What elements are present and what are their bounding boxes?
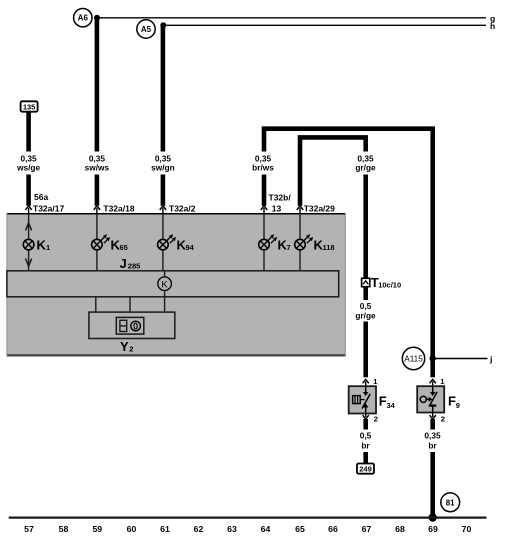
svg-text:A6: A6 [78,14,89,23]
node A5 junction dot [160,22,166,28]
label Y2 [120,339,133,354]
svg-text:2: 2 [129,345,133,354]
wire inside cluster track64 [263,214,265,271]
connector chevron F9 pin 1 [430,377,445,387]
wire ws/ge vertical (track 57, from box 135 to connector T32a/17) [26,112,31,206]
current track numbers 57-70 [24,524,471,534]
svg-text:T32a/2: T32a/2 [169,204,196,214]
label 56a / T32a/17 [33,192,64,214]
svg-text:ws/ge: ws/ge [16,163,40,173]
label wire2 gauge/colour 0,35 sw/ws [85,154,110,173]
connector chevron T32a/18 [94,206,100,214]
svg-text:61: 61 [160,524,170,534]
arrow up above K1 [26,223,32,231]
wire h (thin line from A5 junction to right edge) [164,21,496,31]
svg-text:10c/10: 10c/10 [378,281,401,290]
svg-text:62: 62 [194,524,204,534]
connection A5 (circle label) [137,20,155,38]
svg-text:0,35: 0,35 [424,431,441,441]
label F34 [379,394,396,411]
svg-text:65: 65 [295,524,305,534]
svg-text:A5: A5 [141,25,152,34]
svg-text:60: 60 [127,524,137,534]
svg-text:68: 68 [395,524,405,534]
svg-text:249: 249 [359,465,372,474]
connector chevron T32a/17 [25,206,31,214]
lamp K94 [158,234,195,252]
svg-text:2: 2 [374,415,378,424]
svg-text:58: 58 [59,524,69,534]
svg-text:69: 69 [428,524,438,534]
svg-text:65: 65 [120,243,128,252]
svg-text:34: 34 [387,401,396,410]
wire sw/gn vertical (track 61, from A5 dot to connector T32a/2) [161,25,166,206]
label wire gauge/colour 0,35 br [424,431,441,451]
lamp K1 [23,238,50,253]
wire sw/ws vertical (track 59, from A6 dot to connector T32a/18) [95,18,100,206]
lamp K65 [92,234,128,252]
label wire3 gauge/colour 0,35 sw/gn [151,154,175,173]
connection A6 (circle label) [74,9,92,27]
label T10c/10 [371,275,401,290]
wire 0,5 gr/ge below T10c/10 [363,287,368,378]
wire 0,35 br below F9 [430,419,435,517]
svg-text:T32a/18: T32a/18 [103,204,134,214]
wire br/ws: left leg + outer top bar + right leg down to F9 (tracks 64-69) [264,129,433,378]
connector chevron F9 pin 2 [430,413,445,424]
wire inside cluster track61 [162,214,164,271]
component Y2 clock (box) [89,312,175,338]
inline connector T10c/10 [362,278,370,286]
wire inside cluster track65 [299,214,301,271]
svg-text:7: 7 [287,243,291,252]
connection 135 (box label) [21,101,38,111]
svg-text:285: 285 [128,262,141,271]
wire gr/ge: inner bar from T32a/29 up and over to track 67 [300,137,366,278]
svg-text:K: K [161,279,168,290]
svg-text:T32a/17: T32a/17 [33,204,64,214]
ground connection 81 (circle label) [441,493,460,512]
earth rail (bottom horizontal line) [9,516,487,518]
svg-text:F: F [448,394,456,409]
svg-text:66: 66 [328,524,338,534]
connection A115 (circle label) [402,347,424,369]
label wire1 gauge/colour 0,35 ws/ge [16,154,40,173]
svg-text:67: 67 [362,524,372,534]
connector chevron T32a/2 [160,206,166,214]
svg-text:1: 1 [440,377,444,386]
wire 0,5 br below F34 [363,419,368,464]
connector chevron F34 pin 1 [363,377,378,387]
lamp K7 [259,234,291,252]
svg-text:1: 1 [46,243,50,252]
svg-text:13: 13 [272,204,282,214]
svg-text:br: br [361,440,370,450]
wire stub 2 to Y2 [129,297,131,313]
wire stub 3 to Y2 [164,297,166,313]
svg-text:2: 2 [441,415,445,424]
svg-text:T32b/: T32b/ [269,193,292,203]
label wire gauge/colour 0,5 br [360,431,372,451]
connection 249 (box label) [357,464,374,474]
svg-text:81: 81 [446,498,455,507]
arrow down below K1 [26,259,32,267]
svg-text:70: 70 [462,524,472,534]
connector chevron T32b/13 [261,206,267,214]
node A6 junction dot [94,15,100,21]
label wire gauge/colour 0,5 gr/ge [355,301,376,321]
svg-text:T32a/29: T32a/29 [304,204,335,214]
wire inside cluster track57 [28,214,30,271]
wire g (thin top line from A6 junction to right edge) [97,13,495,23]
svg-text:135: 135 [23,103,36,112]
svg-text:118: 118 [323,243,335,252]
label wire4 gauge/colour 0,35 br/ws [252,154,274,173]
svg-text:br: br [428,440,437,450]
node A115 junction dot [430,355,436,361]
svg-text:J: J [120,256,127,271]
connector chevron T32a/29 [297,206,303,214]
wire j (thin line to right edge) [433,354,493,364]
component J285 instrument cluster (grey body) [7,213,346,356]
label wire6 gauge/colour 0,35 gr/ge [355,154,376,173]
svg-text:h: h [490,21,495,31]
svg-text:K: K [37,238,47,253]
svg-text:0,5: 0,5 [360,431,372,441]
svg-text:sw/gn: sw/gn [151,163,175,173]
svg-text:57: 57 [24,524,34,534]
label T32b/ 13 [269,193,292,214]
terminal K (circled) [158,277,172,291]
component F34 brake fluid level warning contact [349,386,376,413]
wire stub 1 to Y2 [95,297,97,313]
svg-text:9: 9 [456,401,460,410]
svg-text:64: 64 [261,524,271,534]
svg-text:94: 94 [186,243,195,252]
component F9 handbrake warning switch [417,386,444,412]
svg-text:0,5: 0,5 [360,301,372,311]
wire inside cluster track59 [96,214,98,271]
svg-text:sw/ws: sw/ws [85,163,110,173]
connector chevron F34 pin 2 [363,414,378,424]
svg-text:gr/ge: gr/ge [355,163,376,173]
svg-text:1: 1 [373,377,377,386]
svg-text:br/ws: br/ws [252,163,274,173]
internal bus bar rectangle of J285 [7,271,339,297]
svg-text:Y: Y [120,339,129,354]
svg-text:63: 63 [227,524,237,534]
wire stub through terminal K [164,271,166,297]
svg-text:A115: A115 [404,354,423,363]
lamp K118 [295,234,335,252]
svg-text:gr/ge: gr/ge [355,310,376,320]
label J285 [120,256,141,271]
svg-text:59: 59 [92,524,102,534]
node ground junction dot on earth rail [429,513,437,521]
label F9 [448,394,460,411]
svg-text:j: j [489,354,492,364]
svg-text:56a: 56a [34,192,48,202]
